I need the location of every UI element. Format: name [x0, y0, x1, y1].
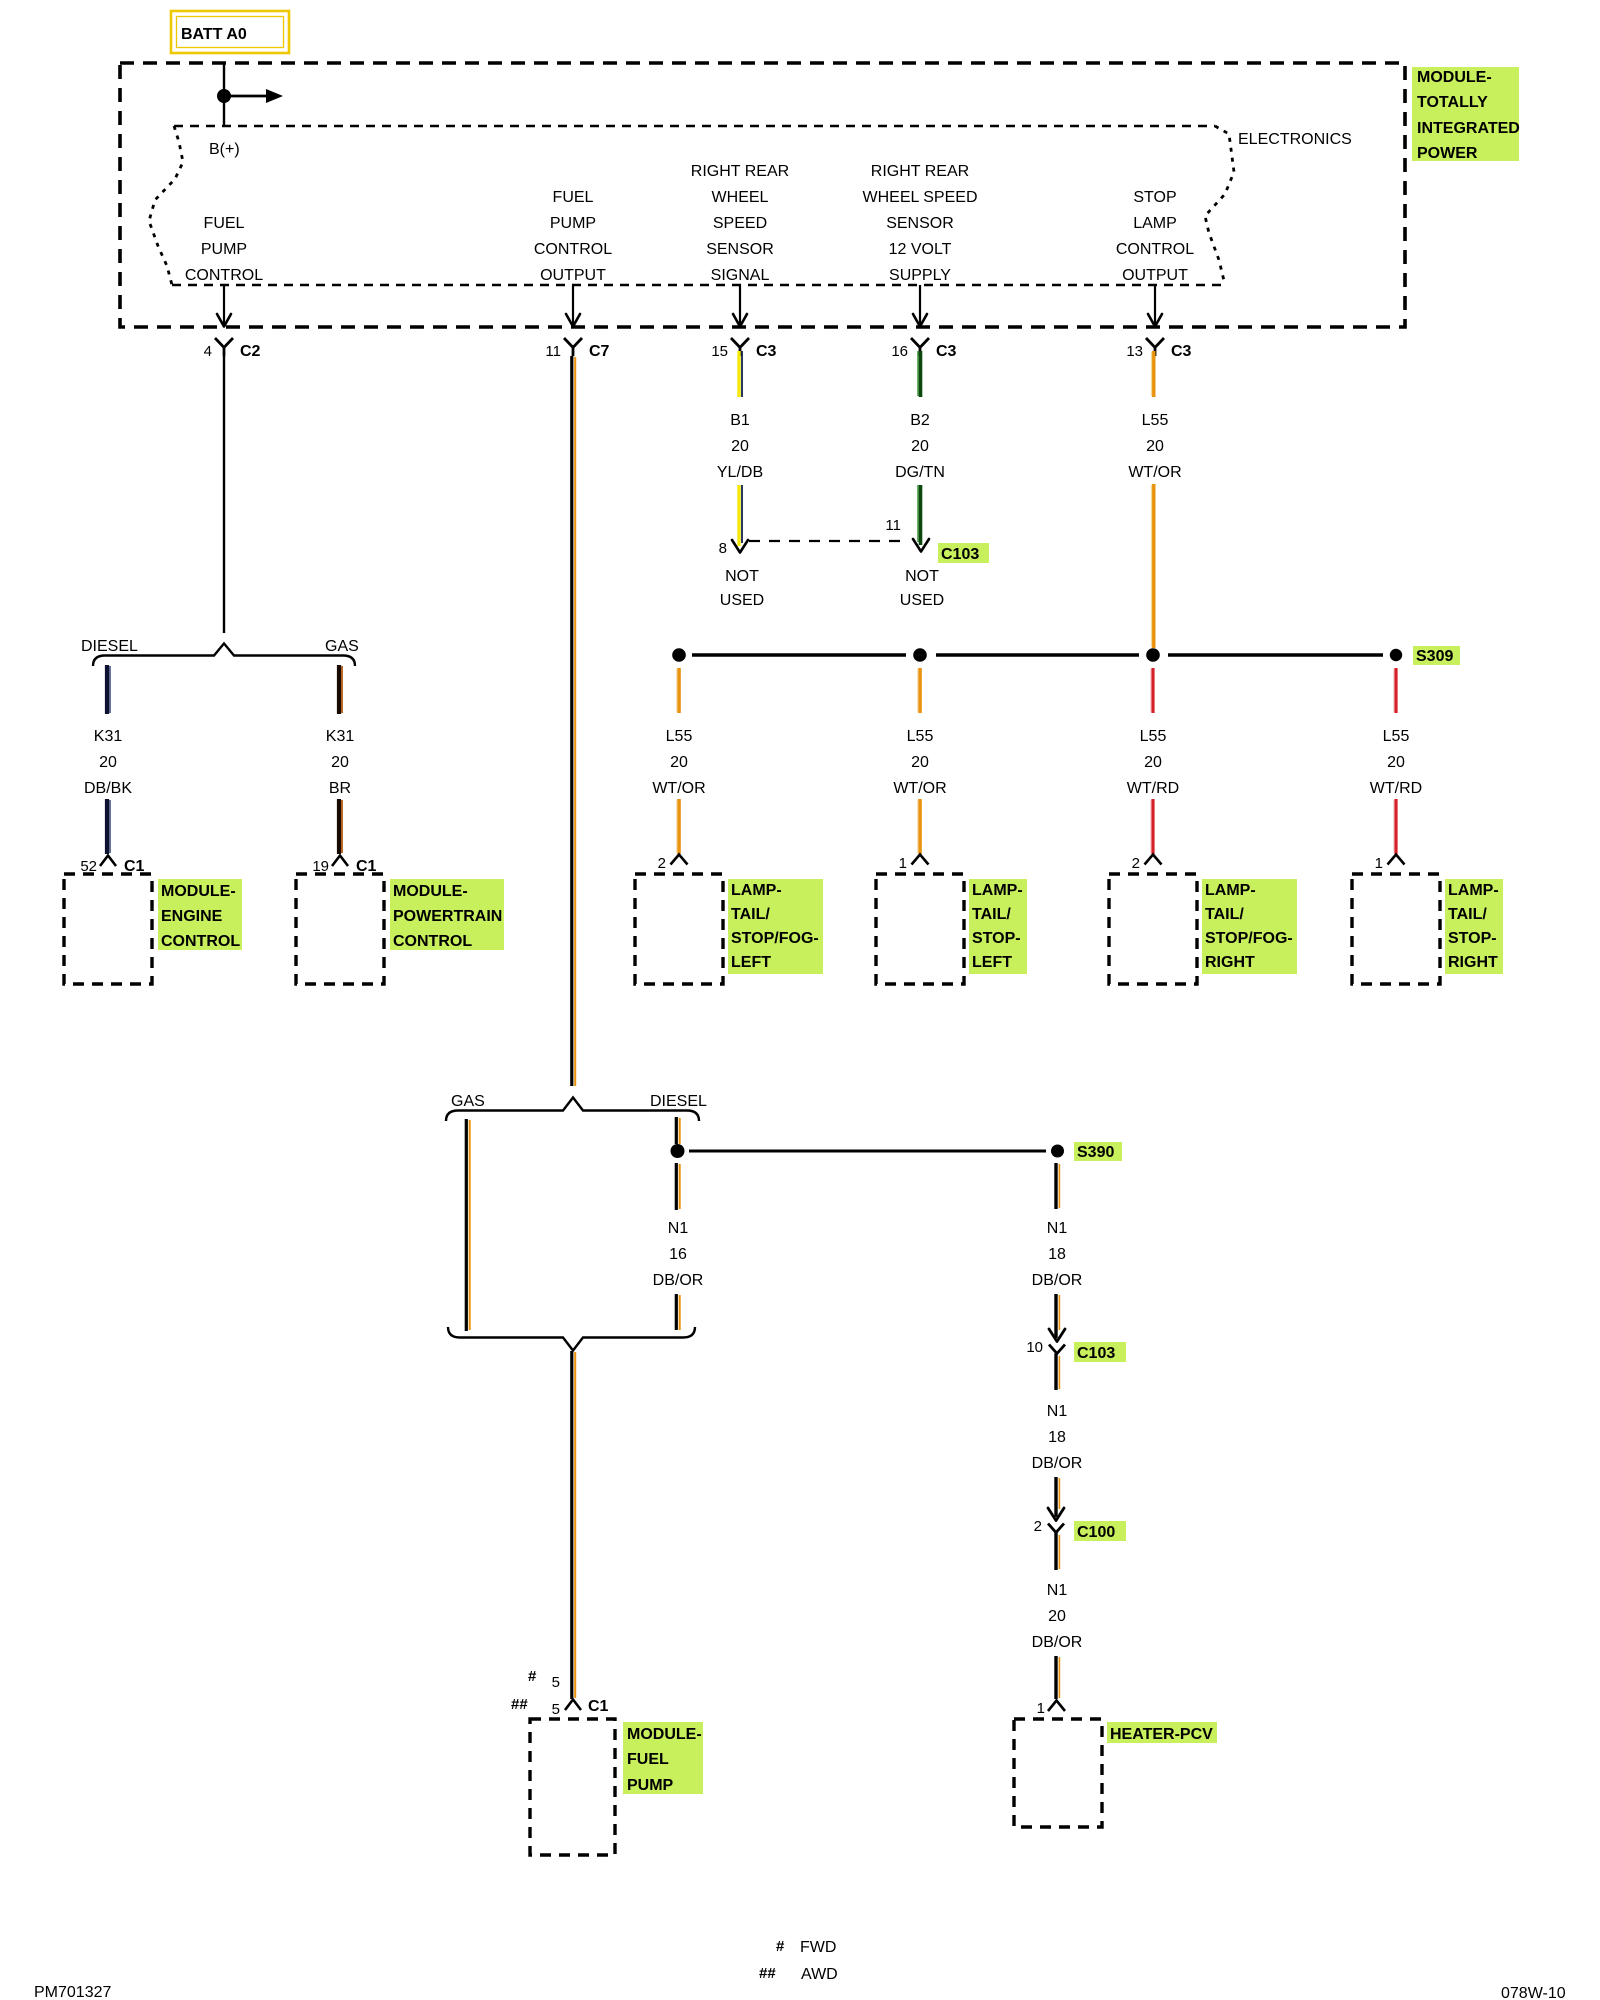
svg-text:SUPPLY: SUPPLY — [889, 267, 951, 284]
wire L55 20 WT/OR from stop lamp control output to S309 — [1152, 351, 1154, 397]
svg-text:STOP-: STOP- — [1448, 930, 1497, 947]
svg-text:SENSOR: SENSOR — [886, 215, 954, 232]
wire L55 20 WT/RD lamp 3 stub — [1151, 668, 1153, 713]
wire battery B(+) feed with junction and arrow — [217, 63, 283, 126]
svg-text:S309: S309 — [1416, 648, 1453, 665]
pin label FUEL PUMP CONTROL OUTPUT — [534, 189, 612, 284]
label MODULE-POWERTRAIN CONTROL — [390, 879, 504, 950]
svg-text:POWERTRAIN: POWERTRAIN — [393, 908, 502, 925]
battery feed box BATT A0 — [171, 11, 289, 53]
legend FWD — [776, 1938, 836, 1956]
svg-text:WHEEL: WHEEL — [712, 189, 769, 206]
wire B1 20 YL/DB segment 1 — [739, 351, 742, 397]
svg-text:20: 20 — [731, 438, 749, 455]
svg-text:RIGHT: RIGHT — [1205, 954, 1255, 971]
svg-text:#: # — [776, 1938, 785, 1955]
svg-text:11: 11 — [885, 517, 901, 534]
connector C103 (not used) label — [938, 543, 989, 563]
wire diesel branch N1 DB/OR upper stub — [676, 1117, 679, 1144]
connector lamp 2 pin 1 — [899, 855, 929, 873]
svg-text:FWD: FWD — [800, 1939, 836, 1956]
svg-text:WT/OR: WT/OR — [893, 780, 946, 797]
svg-text:C100: C100 — [1077, 1524, 1115, 1541]
svg-text:HEATER-PCV: HEATER-PCV — [1110, 1726, 1213, 1743]
svg-text:C103: C103 — [941, 546, 979, 563]
svg-text:PUMP: PUMP — [201, 241, 247, 258]
svg-text:TAIL/: TAIL/ — [731, 906, 770, 923]
svg-text:AWD: AWD — [801, 1966, 838, 1983]
junction dot splice 2 — [913, 648, 927, 662]
module internal exit wires with arrowheads at module edge — [224, 285, 1155, 325]
value label N1 20 DB/OR — [1032, 1582, 1083, 1651]
wire to splice S390 — [689, 1150, 1046, 1153]
svg-text:SPEED: SPEED — [713, 215, 767, 232]
connector C3 pin 16 — [891, 338, 956, 360]
inner electronics sub-block dashed outline — [149, 126, 1234, 285]
svg-text:CONTROL: CONTROL — [185, 267, 263, 284]
label MODULE-TOTALLY INTEGRATED POWER — [1412, 67, 1520, 162]
svg-text:C1: C1 — [588, 1698, 609, 1715]
value label B2 20 DG/TN — [895, 412, 945, 481]
svg-text:STOP/FOG-: STOP/FOG- — [1205, 930, 1293, 947]
svg-text:ENGINE: ENGINE — [161, 908, 223, 925]
value label L55 20 WT/RD lamp 3 — [1127, 728, 1179, 797]
svg-text:FUEL: FUEL — [553, 189, 594, 206]
label LAMP-TAIL/STOP/FOG-LEFT — [728, 879, 823, 974]
svg-text:L55: L55 — [1142, 412, 1169, 429]
svg-text:1: 1 — [899, 855, 907, 872]
svg-text:MODULE-: MODULE- — [627, 1726, 702, 1743]
label NOT USED (left) — [720, 568, 764, 609]
svg-text:2: 2 — [658, 855, 666, 872]
junction dot splice 1 — [672, 648, 686, 662]
lamp tail/stop right dashed box — [1352, 874, 1440, 984]
svg-text:15: 15 — [711, 343, 728, 360]
wire B2 20 DG/TN segment 2 with arrowhead (to C103 not used) — [913, 485, 929, 552]
wire K31 20 DB/BK segment 1 — [107, 665, 110, 714]
wire N1 DB/OR to fuel pump module — [572, 1351, 575, 1699]
svg-text:4: 4 — [204, 343, 212, 360]
connector lamp 4 pin 1 — [1375, 855, 1405, 873]
svg-text:16: 16 — [669, 1246, 687, 1263]
svg-text:L55: L55 — [1140, 728, 1167, 745]
svg-text:SIGNAL: SIGNAL — [711, 267, 770, 284]
svg-text:1: 1 — [1037, 1700, 1045, 1717]
pin label RIGHT REAR WHEEL SPEED SENSOR 12 VOLT SUPPLY — [863, 163, 978, 284]
svg-text:YL/DB: YL/DB — [717, 464, 763, 481]
svg-text:13: 13 — [1126, 343, 1143, 360]
value label L55 20 WT/OR lamp 2 — [893, 728, 946, 797]
label MODULE-ENGINE CONTROL — [158, 879, 242, 950]
svg-text:CONTROL: CONTROL — [161, 933, 240, 950]
svg-text:USED: USED — [900, 592, 944, 609]
svg-text:C3: C3 — [756, 343, 777, 360]
svg-text:10: 10 — [1026, 1339, 1043, 1356]
wire diesel branch lower segment — [676, 1294, 679, 1330]
svg-text:18: 18 — [1048, 1429, 1066, 1446]
svg-text:B(+): B(+) — [209, 141, 240, 158]
heater PCV dashed box — [1014, 1719, 1102, 1827]
module powertrain control dashed box — [296, 874, 384, 984]
svg-text:PUMP: PUMP — [627, 1777, 674, 1794]
svg-text:LAMP-: LAMP- — [1448, 882, 1499, 899]
label LAMP-TAIL/STOP-LEFT — [969, 879, 1027, 974]
label LAMP-TAIL/STOP/FOG-RIGHT — [1202, 879, 1297, 974]
svg-text:WHEEL SPEED: WHEEL SPEED — [863, 189, 978, 206]
svg-text:PM701327: PM701327 — [34, 1984, 111, 2000]
wire N1 20 DB/OR to heater — [1056, 1656, 1059, 1699]
svg-text:CONTROL: CONTROL — [534, 241, 612, 258]
svg-text:POWER: POWER — [1417, 145, 1478, 162]
svg-text:MODULE-: MODULE- — [161, 883, 236, 900]
lamp tail/stop/fog right dashed box — [1109, 874, 1197, 984]
splice S309 bus — [692, 653, 1383, 657]
svg-text:##: ## — [759, 1965, 776, 1982]
svg-text:C7: C7 — [589, 343, 610, 360]
connector C1 pin 52 (engine control module) — [80, 856, 144, 876]
svg-text:LAMP-: LAMP- — [1205, 882, 1256, 899]
svg-text:OUTPUT: OUTPUT — [1122, 267, 1188, 284]
svg-text:BATT A0: BATT A0 — [181, 26, 247, 43]
wire B1 20 YL/DB segment 2 with arrowhead (not used) — [732, 485, 748, 553]
svg-text:11: 11 — [545, 343, 561, 360]
svg-text:16: 16 — [891, 343, 908, 360]
module TIPM outer dashed box — [120, 63, 1405, 327]
svg-text:L55: L55 — [1383, 728, 1410, 745]
junction dot splice 3 — [1146, 648, 1160, 662]
svg-text:8: 8 — [719, 540, 727, 557]
wire dashed link between not-used pins — [749, 540, 908, 542]
connector C100 pin 2 — [1034, 1518, 1126, 1541]
label LAMP-TAIL/STOP-RIGHT — [1445, 879, 1503, 974]
svg-text:5: 5 — [552, 1674, 560, 1691]
svg-text:20: 20 — [331, 754, 349, 771]
svg-text:NOT: NOT — [725, 568, 759, 585]
svg-text:K31: K31 — [326, 728, 355, 745]
wire L55 20 WT/OR lamp 1 stub — [677, 668, 679, 713]
svg-text:N1: N1 — [1047, 1220, 1068, 1237]
split brace GAS/DIESEL — [446, 1098, 699, 1122]
svg-text:B1: B1 — [730, 412, 750, 429]
connector C3 pin 15 — [711, 338, 776, 360]
value label N1 18 DB/OR (lower) — [1032, 1403, 1083, 1472]
svg-text:18: 18 — [1048, 1246, 1066, 1263]
svg-text:PUMP: PUMP — [550, 215, 596, 232]
svg-text:WT/RD: WT/RD — [1370, 780, 1422, 797]
svg-text:C3: C3 — [1171, 343, 1192, 360]
svg-text:5: 5 — [552, 1701, 560, 1718]
svg-text:20: 20 — [1146, 438, 1164, 455]
svg-text:STOP-: STOP- — [972, 930, 1021, 947]
svg-text:DB/BK: DB/BK — [84, 780, 132, 797]
svg-text:CONTROL: CONTROL — [393, 933, 472, 950]
junction dot diesel branch to S390 — [671, 1144, 685, 1158]
wire N1 18 DB/OR to C103 with arrowhead — [1049, 1294, 1065, 1342]
svg-text:N1: N1 — [1047, 1582, 1068, 1599]
svg-text:LAMP-: LAMP- — [731, 882, 782, 899]
value label K31 20 DB/BK — [84, 728, 132, 797]
svg-text:20: 20 — [1144, 754, 1162, 771]
svg-text:NOT: NOT — [905, 568, 939, 585]
pin label STOP LAMP CONTROL OUTPUT — [1116, 189, 1194, 284]
svg-text:WT/OR: WT/OR — [652, 780, 705, 797]
label MODULE-FUEL PUMP — [623, 1722, 703, 1794]
svg-text:#: # — [528, 1668, 537, 1685]
wire L55 20 WT/RD lamp 4 stub — [1394, 668, 1396, 713]
wire L55 lamp 1 segment 2 — [677, 799, 679, 854]
svg-text:SENSOR: SENSOR — [706, 241, 774, 258]
wire N1 18 DB/OR to C100 with arrowhead — [1048, 1477, 1064, 1521]
wire fuel pump control (C2 pin 4 to split) — [223, 356, 225, 633]
value label L55 20 WT/RD lamp 4 — [1370, 728, 1422, 797]
svg-text:BR: BR — [329, 780, 351, 797]
legend AWD — [759, 1965, 838, 1983]
svg-text:2: 2 — [1132, 855, 1140, 872]
connector C3 pin 13 — [1126, 338, 1191, 360]
module engine control dashed box — [64, 874, 152, 984]
svg-text:DIESEL: DIESEL — [81, 638, 138, 655]
legend mark ## pin 5 (AWD) with connector C1 — [511, 1696, 609, 1718]
label HEATER-PCV — [1107, 1722, 1217, 1743]
svg-text:TAIL/: TAIL/ — [972, 906, 1011, 923]
svg-text:1: 1 — [1375, 855, 1383, 872]
svg-text:MODULE-: MODULE- — [1417, 69, 1492, 86]
wire K31 20 DB/BK segment 2 — [107, 799, 110, 854]
wire N1 20 DB/OR below C100 — [1056, 1533, 1059, 1571]
svg-text:LAMP-: LAMP- — [972, 882, 1023, 899]
svg-text:20: 20 — [99, 754, 117, 771]
svg-text:20: 20 — [1048, 1608, 1066, 1625]
legend mark # pin 5 (FWD) — [528, 1668, 560, 1691]
label NOT USED (right) — [900, 568, 944, 609]
svg-text:LEFT: LEFT — [731, 954, 771, 971]
svg-text:C3: C3 — [936, 343, 957, 360]
connector C1 pin 19 (powertrain control module) — [312, 856, 376, 876]
svg-text:USED: USED — [720, 592, 764, 609]
svg-text:20: 20 — [1387, 754, 1405, 771]
svg-text:C103: C103 — [1077, 1345, 1115, 1362]
module fuel pump dashed box — [530, 1719, 615, 1855]
value label N1 18 DB/OR (upper) — [1032, 1220, 1083, 1289]
svg-text:OUTPUT: OUTPUT — [540, 267, 606, 284]
lamp tail/stop/fog left dashed box — [635, 874, 723, 984]
connector lamp 3 pin 2 — [1132, 855, 1162, 873]
svg-text:12 VOLT: 12 VOLT — [889, 241, 952, 258]
wire N1 18 DB/OR from S390 down — [1056, 1163, 1059, 1209]
lamp tail/stop left dashed box — [876, 874, 964, 984]
wire N1 18 DB/OR below C103 — [1056, 1354, 1059, 1391]
svg-text:K31: K31 — [94, 728, 123, 745]
wire K31 20 BR segment 1 — [339, 665, 342, 714]
value label B1 20 YL/DB — [717, 412, 763, 481]
svg-text:20: 20 — [911, 438, 929, 455]
split brace DIESEL/GAS — [93, 644, 355, 667]
svg-text:N1: N1 — [1047, 1403, 1068, 1420]
value label L55 20 WT/OR lamp 1 — [652, 728, 705, 797]
svg-text:C2: C2 — [240, 343, 261, 360]
svg-text:MODULE-: MODULE- — [393, 883, 468, 900]
connector C103 pin 10 — [1026, 1339, 1126, 1362]
svg-text:TAIL/: TAIL/ — [1205, 906, 1244, 923]
wire N1 16 DB/OR fuel pump control output (C7 to GAS/DIESEL split) — [572, 356, 575, 1086]
value label L55 20 WT/OR (stop lamp feed) — [1128, 412, 1181, 481]
svg-text:LAMP: LAMP — [1133, 215, 1177, 232]
connector C2 pin 4 — [204, 338, 261, 360]
svg-text:N1: N1 — [668, 1220, 689, 1237]
svg-text:TAIL/: TAIL/ — [1448, 906, 1487, 923]
svg-text:DB/OR: DB/OR — [1032, 1634, 1083, 1651]
svg-text:078W-10: 078W-10 — [1501, 1985, 1566, 2000]
svg-text:20: 20 — [670, 754, 688, 771]
connector heater pin 1 — [1037, 1700, 1065, 1717]
wire diesel branch below junction — [676, 1163, 679, 1210]
splice label S309 — [1413, 646, 1460, 665]
svg-text:FUEL: FUEL — [204, 215, 245, 232]
svg-text:TOTALLY: TOTALLY — [1417, 94, 1488, 111]
svg-text:LEFT: LEFT — [972, 954, 1012, 971]
svg-text:20: 20 — [911, 754, 929, 771]
svg-text:CONTROL: CONTROL — [1116, 241, 1194, 258]
svg-text:DG/TN: DG/TN — [895, 464, 945, 481]
value label K31 20 BR — [326, 728, 355, 797]
svg-text:L55: L55 — [666, 728, 693, 745]
svg-text:GAS: GAS — [451, 1093, 485, 1110]
svg-text:##: ## — [511, 1696, 528, 1713]
svg-text:WT/RD: WT/RD — [1127, 780, 1179, 797]
svg-text:B2: B2 — [910, 412, 930, 429]
wire K31 20 BR segment 2 — [339, 799, 342, 854]
pin label FUEL PUMP CONTROL — [185, 215, 263, 284]
wire B2 20 DG/TN segment 1 — [918, 351, 921, 397]
wire L55 lamp 4 segment 2 — [1394, 799, 1396, 854]
wire L55 lamp 3 segment 2 — [1151, 799, 1153, 854]
svg-text:RIGHT REAR: RIGHT REAR — [871, 163, 969, 180]
svg-text:S390: S390 — [1077, 1144, 1114, 1161]
pin label RIGHT REAR WHEEL SPEED SENSOR SIGNAL — [691, 163, 789, 284]
svg-text:DIESEL: DIESEL — [650, 1093, 707, 1110]
svg-text:RIGHT REAR: RIGHT REAR — [691, 163, 789, 180]
value label N1 16 DB/OR (diesel branch) — [653, 1220, 704, 1289]
merge brace gas/diesel to fuel pump — [448, 1327, 695, 1351]
svg-text:ELECTRONICS: ELECTRONICS — [1238, 131, 1352, 148]
svg-text:DB/OR: DB/OR — [653, 1272, 704, 1289]
svg-text:STOP: STOP — [1133, 189, 1176, 206]
svg-text:L55: L55 — [907, 728, 934, 745]
svg-text:RIGHT: RIGHT — [1448, 954, 1498, 971]
splice label S390 — [1074, 1142, 1122, 1161]
junction dot S390 — [1051, 1145, 1064, 1158]
wire L55 lamp 2 segment 2 — [918, 799, 920, 854]
wire L55 20 WT/OR lower segment to splice — [1152, 484, 1154, 648]
svg-text:FUEL: FUEL — [627, 1751, 669, 1768]
junction dot splice 4 — [1390, 649, 1402, 661]
svg-text:2: 2 — [1034, 1518, 1042, 1535]
wire L55 20 WT/OR lamp 2 stub — [918, 668, 920, 713]
svg-text:STOP/FOG-: STOP/FOG- — [731, 930, 819, 947]
connector lamp 1 pin 2 — [658, 855, 688, 873]
connector C7 pin 11 — [545, 338, 609, 360]
svg-text:INTEGRATED: INTEGRATED — [1417, 120, 1520, 137]
wire gas branch N1 DB/OR — [466, 1119, 469, 1331]
svg-text:GAS: GAS — [325, 638, 359, 655]
svg-text:DB/OR: DB/OR — [1032, 1455, 1083, 1472]
svg-text:DB/OR: DB/OR — [1032, 1272, 1083, 1289]
svg-text:WT/OR: WT/OR — [1128, 464, 1181, 481]
